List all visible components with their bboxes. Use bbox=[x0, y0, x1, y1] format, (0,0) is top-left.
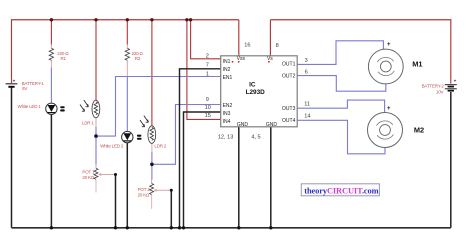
wire: LED2 cathode to ground bbox=[126, 143, 128, 228]
pin label IN2 bbox=[223, 67, 231, 73]
wire: IN2 net pin 7 to ground bbox=[180, 69, 221, 228]
pin number 12, 13 bbox=[218, 134, 234, 140]
pin label GND left bbox=[237, 122, 249, 128]
wire: OUT2 pin 6 to M1 - terminal bbox=[297, 76, 386, 92]
node rail junction R1 bbox=[50, 18, 53, 21]
node ground junction IN3 bbox=[182, 226, 185, 229]
wire: battery1 positive lead bbox=[11, 19, 13, 83]
resistor R1 bbox=[49, 48, 53, 60]
pin number 10 bbox=[205, 105, 211, 111]
node POT2 wiper corner bbox=[170, 189, 173, 192]
pin label OUT4 bbox=[282, 118, 296, 124]
pin number 2 bbox=[206, 53, 209, 59]
svg-text:R2: R2 bbox=[135, 56, 141, 61]
node rail junction LDR2 bbox=[150, 18, 153, 21]
wire: R2 to LED2 anode bbox=[126, 76, 128, 131]
label M1 bbox=[412, 60, 422, 69]
svg-text:+: + bbox=[387, 106, 391, 112]
wire: GND pins 12,13 to ground rail bbox=[238, 127, 240, 228]
wire: LDR1 top lead from rail bbox=[95, 20, 97, 101]
wire: R2 bottom pink stub bbox=[126, 60, 128, 76]
wire: +6V top-left rail from BATTERY-1 to pin 16 bbox=[12, 19, 239, 21]
svg-text:GND: GND bbox=[266, 122, 278, 128]
node rail junction IN4 bbox=[185, 18, 188, 21]
svg-text:OUT1: OUT1 bbox=[282, 62, 296, 68]
label LDR 1 bbox=[82, 120, 94, 125]
svg-text:1: 1 bbox=[206, 72, 209, 78]
svg-text:6V: 6V bbox=[22, 86, 27, 91]
svg-text:11: 11 bbox=[304, 102, 310, 108]
svg-text:OUT2: OUT2 bbox=[282, 74, 296, 80]
node ground junction GND 12,13 bbox=[237, 226, 240, 229]
wire: OUT3 pin 11 to M2 + terminal bbox=[297, 100, 384, 113]
svg-text:15: 15 bbox=[205, 113, 211, 119]
node EN2 tap junction bbox=[150, 163, 154, 167]
wire: OUT1 pin 3 to M1 + terminal bbox=[297, 41, 383, 65]
svg-text:POT 2: POT 2 bbox=[138, 187, 151, 192]
svg-text:20 KΩ: 20 KΩ bbox=[138, 192, 150, 197]
pin number 16 bbox=[244, 42, 250, 48]
label M2 bbox=[414, 125, 424, 134]
wire: +10V top-right rail from pin 8 riser to BATTERY-2 bbox=[270, 19, 450, 21]
svg-text:L293D: L293D bbox=[246, 89, 266, 96]
wire: pin 16 Vss drop from rail to IC top bbox=[238, 20, 240, 56]
wire: POT1 wiper to ground bbox=[115, 175, 117, 228]
resistor R2 bbox=[125, 48, 129, 60]
svg-text:10V: 10V bbox=[436, 89, 444, 94]
wire: OUT4 pin 14 to M2 - terminal bbox=[297, 120, 385, 154]
svg-text:3: 3 bbox=[305, 58, 308, 64]
pin label Vss bbox=[237, 56, 246, 63]
battery BATTERY-2 bbox=[445, 79, 457, 91]
svg-text:R1: R1 bbox=[61, 56, 67, 61]
node rail junction R2 bbox=[126, 18, 129, 21]
wire: battery1 negative lead to ground rail bbox=[11, 88, 13, 228]
svg-text:16: 16 bbox=[244, 42, 250, 48]
pin number 7 bbox=[206, 63, 209, 69]
pin number 15 bbox=[205, 113, 211, 119]
svg-text:M1: M1 bbox=[412, 60, 422, 69]
node ground junction LED1 bbox=[50, 226, 53, 229]
op IC U1 L293D body bbox=[221, 56, 298, 127]
label White LED 1 bbox=[18, 104, 42, 109]
LDR2 bbox=[140, 116, 156, 144]
svg-text:+: + bbox=[454, 79, 457, 84]
pin label EN1 bbox=[223, 75, 233, 81]
svg-text:BATTERY-1: BATTERY-1 bbox=[22, 81, 45, 86]
wire: EN1 net from LDR1/POT1 node to pin 1 bbox=[96, 77, 221, 137]
potentiometer POT2 bbox=[150, 184, 154, 195]
pin number 14 bbox=[304, 114, 310, 120]
wire: R1 bottom pink stub bbox=[50, 60, 52, 67]
svg-text:9: 9 bbox=[206, 97, 209, 103]
svg-text:10: 10 bbox=[205, 105, 211, 111]
pin number 4, 5 bbox=[251, 134, 260, 140]
node EN1 tap junction bbox=[94, 134, 98, 138]
svg-text:IN1: IN1 bbox=[223, 59, 231, 65]
label LDR 2 bbox=[154, 143, 166, 148]
svg-text:M2: M2 bbox=[414, 125, 424, 134]
LED White LED 1 bbox=[46, 103, 65, 114]
wire: IN1 net from rail to pin 2 bbox=[191, 20, 221, 59]
node ground junction LED2 bbox=[126, 226, 129, 229]
label 220 ohm R1 bbox=[57, 51, 69, 61]
pin label OUT3 bbox=[282, 106, 296, 112]
svg-text:OUT4: OUT4 bbox=[282, 118, 296, 124]
svg-text:7: 7 bbox=[206, 63, 209, 69]
svg-text:GND: GND bbox=[237, 122, 249, 128]
wire: R2 top lead from rail bbox=[126, 20, 128, 49]
pin label OUT1 bbox=[282, 62, 296, 68]
wire: POT1 wiper lead bbox=[98, 173, 115, 176]
motor M2 bbox=[368, 106, 403, 148]
pin label IN4 bbox=[223, 119, 231, 125]
pin number 6 bbox=[305, 70, 308, 76]
pin label EN2 bbox=[223, 103, 233, 109]
svg-text:20 KΩ: 20 KΩ bbox=[82, 175, 94, 180]
wire: EN2 net from LDR2/POT2 node to pin 9 bbox=[152, 105, 221, 165]
pin label IN3 bbox=[223, 111, 231, 117]
wire: LED1 cathode to ground bbox=[50, 115, 52, 228]
pin label Vs bbox=[267, 56, 273, 63]
wire: POT1 bottom open stub bbox=[95, 179, 97, 192]
label BATTERY-2 10V bbox=[422, 84, 445, 95]
wire: POT2 bottom open stub bbox=[151, 195, 153, 209]
svg-text:14: 14 bbox=[304, 114, 310, 120]
label 220 ohm R2 bbox=[132, 51, 144, 61]
pin label OUT2 bbox=[282, 74, 296, 80]
svg-text:IN3: IN3 bbox=[223, 111, 231, 117]
svg-text:White LED 2: White LED 2 bbox=[100, 143, 124, 148]
node POT1 wiper corner bbox=[114, 173, 117, 176]
node rail junction IN1 bbox=[189, 18, 192, 21]
wire: LDR2 to POT2 top bbox=[151, 152, 153, 184]
wire: GND pins 4,5 to ground rail bbox=[270, 127, 272, 228]
wire: LDR2 bottom stub bbox=[151, 143, 153, 152]
svg-text:4, 5: 4, 5 bbox=[251, 134, 260, 140]
label BATTERY-1 6V bbox=[22, 81, 45, 91]
wire: POT2 wiper lead bbox=[154, 189, 172, 192]
wire: LDR1 to POT1 top bbox=[95, 127, 97, 169]
pin number 9 bbox=[206, 97, 209, 103]
wire: IN4 net from rail to pin 15 bbox=[187, 20, 221, 120]
svg-text:White LED 1: White LED 1 bbox=[18, 104, 42, 109]
label POT 2 20 K bbox=[138, 187, 151, 198]
wire: IN3 net pin 10 to ground bbox=[184, 112, 221, 228]
pin marker IN1 red bbox=[232, 61, 234, 63]
label White LED 2 bbox=[100, 143, 124, 148]
node ground junction IN2 bbox=[178, 226, 181, 229]
node ground junction POT1 wiper bbox=[114, 226, 117, 229]
svg-text:+: + bbox=[387, 42, 391, 48]
svg-text:IN4: IN4 bbox=[223, 119, 231, 125]
wire: R1 top lead from rail bbox=[50, 20, 52, 49]
svg-text:LDR 1: LDR 1 bbox=[82, 120, 94, 125]
battery BATTERY-1 bbox=[6, 78, 18, 87]
node ground junction GND 4,5 bbox=[269, 226, 272, 229]
wire: POT2 wiper to ground bbox=[170, 190, 172, 228]
pin number 3 bbox=[305, 58, 308, 64]
LED White LED 2 bbox=[122, 131, 142, 142]
wire: LDR1 bottom stub bbox=[95, 118, 97, 127]
svg-text:EN2: EN2 bbox=[223, 103, 233, 109]
pin number 8 bbox=[276, 43, 279, 49]
wire: LDR2 top lead from rail bbox=[151, 20, 153, 126]
node rail junction LDR1 bbox=[94, 18, 97, 21]
svg-text:OUT3: OUT3 bbox=[282, 106, 296, 112]
potentiometer POT1 bbox=[94, 168, 98, 179]
wire: ground bottom rail bbox=[12, 227, 451, 229]
wire: R1 to LED1 anode bbox=[50, 68, 52, 104]
svg-text:2: 2 bbox=[206, 53, 209, 59]
theoryCIRCUIT.com watermark box bbox=[301, 184, 379, 196]
svg-text:Vs: Vs bbox=[267, 56, 273, 62]
svg-text:6: 6 bbox=[305, 70, 308, 76]
svg-text:POT 1: POT 1 bbox=[82, 169, 95, 174]
svg-text:8: 8 bbox=[276, 43, 279, 49]
pin number 11 bbox=[304, 102, 310, 108]
motor M1 bbox=[368, 42, 403, 84]
svg-text:IN2: IN2 bbox=[223, 67, 231, 73]
node ground junction POT2 wiper bbox=[170, 226, 173, 229]
svg-text:theoryCIRCUIT.com: theoryCIRCUIT.com bbox=[304, 186, 378, 195]
label POT 1 20 K bbox=[82, 169, 95, 180]
wire: battery2 positive lead bbox=[450, 19, 452, 84]
svg-text:LDR 2: LDR 2 bbox=[154, 143, 166, 148]
pin number 1 bbox=[206, 72, 209, 78]
wire: pin 8 Vs drop from rail to IC top bbox=[269, 20, 271, 56]
svg-text:+: + bbox=[13, 78, 16, 83]
svg-text:BATTERY-2: BATTERY-2 bbox=[422, 84, 445, 89]
wire: battery2 negative lead to ground rail bbox=[450, 92, 452, 228]
pin label IN1 bbox=[223, 59, 231, 65]
svg-text:12, 13: 12, 13 bbox=[218, 134, 234, 140]
svg-text:EN1: EN1 bbox=[223, 75, 233, 81]
svg-text:IC: IC bbox=[249, 81, 256, 88]
LDR1 bbox=[80, 100, 100, 118]
pin label GND right bbox=[266, 122, 278, 128]
